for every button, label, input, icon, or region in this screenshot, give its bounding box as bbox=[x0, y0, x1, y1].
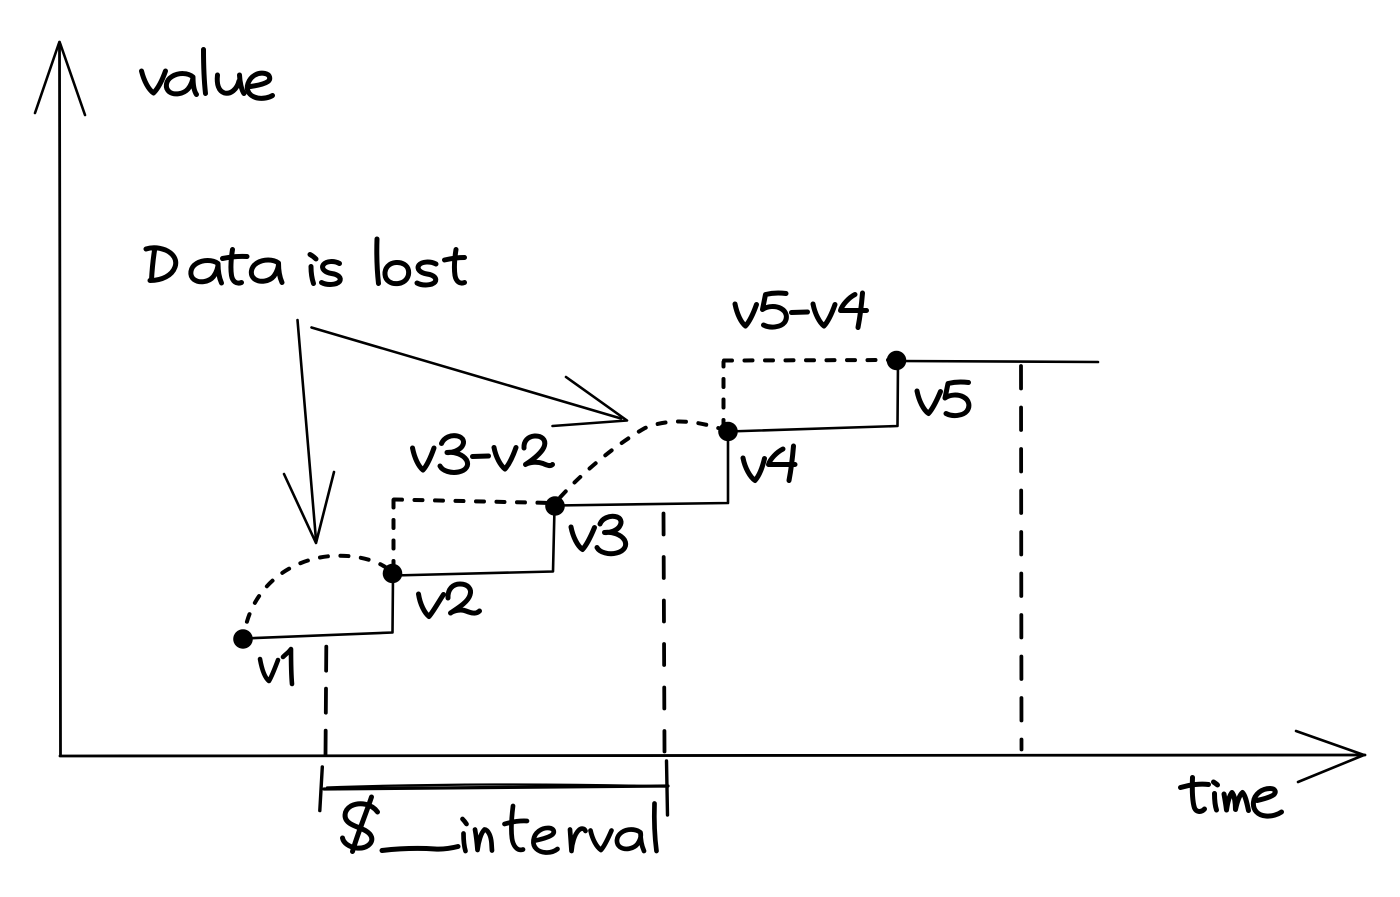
step segment v1 bbox=[244, 576, 394, 639]
annotation arrow right (to arc v3-v4) bbox=[312, 328, 622, 419]
label __ (underscore stroke of $__interval) bbox=[382, 847, 458, 851]
step segment v5 (tail) bbox=[898, 361, 1099, 362]
label v3 bbox=[571, 516, 626, 553]
label interval (of $__interval) bbox=[463, 804, 657, 853]
interval bracket line (second hand-drawn pass) bbox=[327, 784, 665, 787]
label v4 bbox=[743, 446, 795, 481]
annotation arrow down head bbox=[284, 472, 334, 543]
label v3-v2 bbox=[413, 436, 553, 473]
dashed guide line at t1 bbox=[324, 647, 329, 755]
dotted delta v5-v4 vertical bbox=[722, 362, 726, 428]
step segment v2 bbox=[394, 508, 555, 576]
interval bracket left tick bbox=[320, 767, 323, 811]
step segment v3 bbox=[556, 434, 728, 506]
y-axis bbox=[60, 42, 61, 755]
label v1 bbox=[260, 649, 292, 684]
axis label: value bbox=[142, 50, 273, 99]
interval bracket right tick bbox=[667, 761, 668, 815]
interval bracket line bbox=[324, 786, 668, 789]
annotation arrow down (to arc v1-v2) bbox=[298, 320, 317, 540]
axis label: time bbox=[1181, 778, 1282, 817]
dotted arc v1 to v2 (lost data) bbox=[245, 556, 392, 630]
data point v5 bbox=[887, 351, 907, 371]
annotation arrow right head bbox=[553, 377, 628, 426]
label $ (of $__interval) bbox=[343, 797, 378, 852]
label v5-v4 bbox=[735, 293, 867, 328]
dotted arc v3 to v4 (lost data) bbox=[556, 422, 727, 502]
label v5 bbox=[917, 382, 969, 416]
y-axis arrowhead bbox=[35, 43, 85, 115]
step segment v4 bbox=[729, 363, 899, 432]
dotted delta v3-v2 vertical bbox=[392, 500, 396, 569]
dotted delta v5-v4 horizontal bbox=[724, 358, 890, 363]
data point v4 bbox=[718, 422, 738, 442]
label v2 bbox=[419, 584, 480, 617]
dashed guide line at t3 bbox=[1019, 366, 1023, 750]
data point v2 bbox=[383, 564, 403, 584]
data point v3 bbox=[545, 496, 565, 516]
dotted delta v3-v2 horizontal bbox=[394, 500, 552, 504]
dashed guide line at t2 bbox=[664, 514, 665, 752]
annotation text: Data is lost bbox=[146, 239, 465, 285]
data point v1 bbox=[233, 629, 253, 649]
x-axis arrowhead bbox=[1296, 731, 1364, 782]
x-axis bbox=[60, 755, 1365, 756]
